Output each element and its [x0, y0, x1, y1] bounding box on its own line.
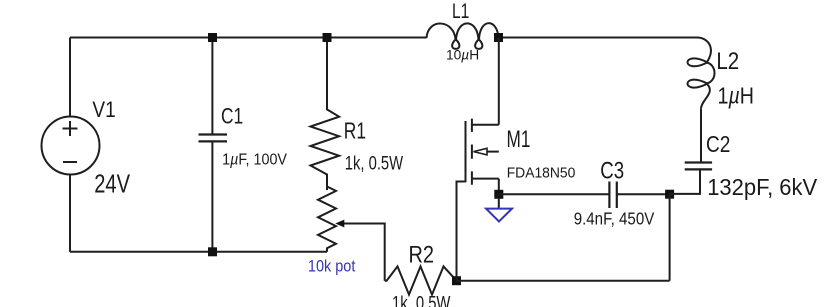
- svg-text:C1: C1: [221, 104, 243, 129]
- wire V1 bottom lead: [69, 175, 71, 252]
- junction R1 top: [323, 33, 332, 42]
- wire right vertical to bottom: [669, 194, 671, 281]
- svg-text:R2: R2: [409, 242, 435, 269]
- gate wire: [457, 182, 466, 281]
- wire top-left horizontal: [70, 37, 427, 39]
- svg-text:1k, 0.5W: 1k, 0.5W: [392, 293, 451, 307]
- inductor L2: [688, 38, 715, 109]
- svg-text:FDA18N50: FDA18N50: [507, 166, 576, 182]
- capacitor C3: [609, 182, 616, 209]
- svg-text:C2: C2: [706, 131, 730, 157]
- junction C1 bottom: [208, 247, 217, 256]
- svg-text:C3: C3: [600, 158, 624, 185]
- wire bottom-left horizontal: [70, 251, 327, 253]
- drain wire: [498, 38, 500, 125]
- potentiometer 10k: [318, 187, 336, 252]
- capacitor C1: [199, 38, 228, 252]
- junction R2 right: [452, 276, 461, 285]
- junction C3 right: [665, 190, 674, 199]
- drain stub: [472, 124, 499, 126]
- capacitor C2: [685, 163, 712, 170]
- svg-text:L1: L1: [452, 0, 469, 23]
- svg-text:V1: V1: [92, 97, 115, 122]
- svg-text:1µF, 100V: 1µF, 100V: [222, 152, 288, 169]
- pot wiper arrow: [335, 220, 384, 281]
- MOSFET M1: [457, 38, 499, 281]
- channel segments: [471, 119, 473, 185]
- junction after L1: [494, 33, 503, 42]
- source wire: [498, 179, 500, 195]
- svg-text:L2: L2: [716, 48, 739, 75]
- wire top-right horizontal: [499, 37, 698, 39]
- svg-text:R1: R1: [344, 118, 366, 144]
- inductor L1: [427, 23, 499, 49]
- junction MOSFET source: [494, 190, 503, 199]
- svg-text:10µH: 10µH: [446, 47, 479, 63]
- svg-text:10k pot: 10k pot: [308, 258, 356, 276]
- svg-text:132pF, 6kV: 132pF, 6kV: [707, 174, 817, 200]
- source stub: [472, 178, 499, 180]
- svg-text:M1: M1: [507, 126, 531, 153]
- voltage source V1: [42, 117, 100, 175]
- svg-text:24V: 24V: [94, 169, 130, 199]
- resistor R2: [385, 266, 457, 294]
- wire C3 left: [499, 193, 609, 195]
- wire C3 right: [617, 193, 669, 195]
- wire bottom-right horizontal: [457, 280, 670, 282]
- junction C1 top: [208, 33, 217, 42]
- wire L2 to C2: [700, 109, 702, 162]
- wire C2 bottom: [670, 170, 700, 194]
- resistor R1: [311, 38, 340, 191]
- svg-text:1k, 0.5W: 1k, 0.5W: [345, 153, 404, 175]
- svg-text:9.4nF, 450V: 9.4nF, 450V: [574, 208, 655, 228]
- ground: [486, 199, 512, 222]
- wire left vertical (V1 top lead): [69, 38, 71, 117]
- body arrow: [487, 151, 499, 153]
- gate plate: [465, 121, 467, 182]
- svg-text:1µH: 1µH: [718, 83, 755, 109]
